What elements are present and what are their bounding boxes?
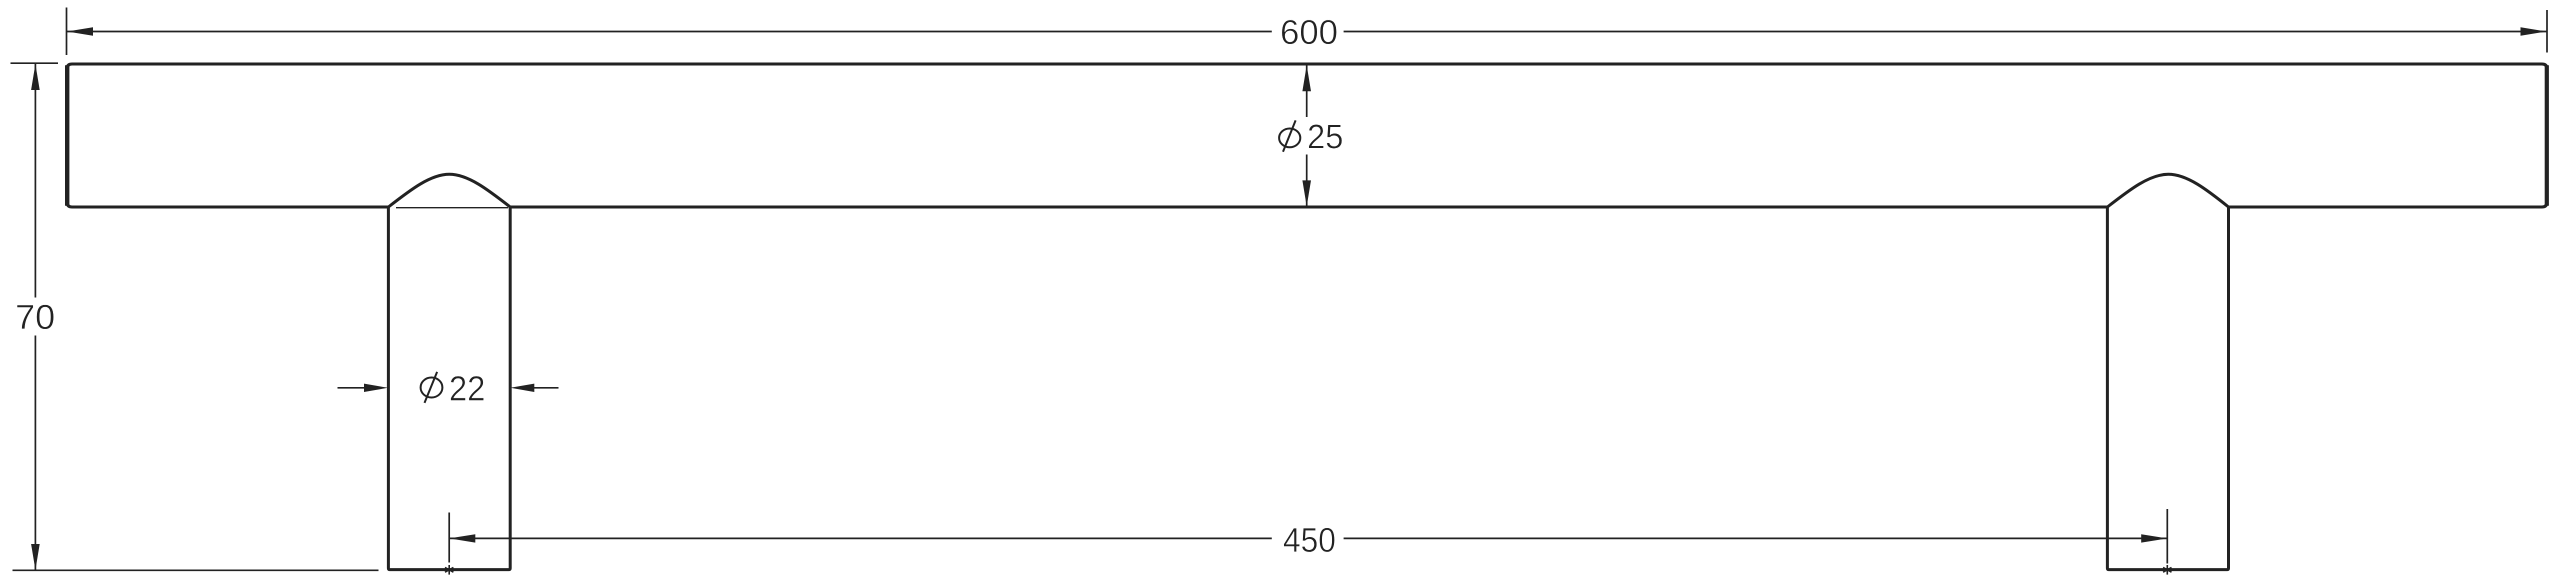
dim dia25 diameter symbol bbox=[1279, 120, 1300, 151]
center mark star left bbox=[445, 565, 453, 575]
dim 70 arrow down bbox=[31, 544, 40, 570]
dim 600 arrow right bbox=[2521, 27, 2547, 36]
dim dia22 leader line right bbox=[533, 387, 559, 389]
dim 450 arrow left (pointing left) bbox=[449, 534, 475, 542]
bar outline bbox=[67, 64, 2547, 207]
dim dia22 arrow right (pointing left) bbox=[510, 384, 534, 392]
dim dia25 arrow down bbox=[1302, 180, 1311, 206]
bar left end face bbox=[65, 65, 69, 206]
dim 70 line upper segment bbox=[34, 64, 36, 298]
dim 600 extension line left bbox=[66, 8, 68, 56]
center mark star right bbox=[2163, 565, 2171, 575]
dim dia22 text bbox=[451, 376, 484, 401]
dim 600 line left segment bbox=[67, 31, 1272, 33]
left post bbox=[388, 207, 510, 570]
dim dia25 arrow up bbox=[1302, 65, 1311, 91]
dim dia22 diameter symbol bbox=[421, 372, 443, 403]
dim 600 arrow left bbox=[67, 27, 93, 36]
dim dia25 text bbox=[1309, 124, 1342, 148]
left post fillet arch bbox=[388, 174, 510, 207]
right post fillet arch bbox=[2107, 174, 2228, 207]
dim dia22 arrow left (pointing right) bbox=[364, 384, 388, 392]
dim dia25 line lower segment bbox=[1306, 155, 1308, 207]
bar bottom edge seen through left post (thin) bbox=[396, 207, 508, 209]
dim 450 line left segment bbox=[449, 537, 1272, 539]
dim 600 extension line right bbox=[2546, 10, 2548, 53]
dim 450 extension line left bbox=[448, 513, 450, 563]
dim 70 extension line top bbox=[11, 62, 59, 64]
dim 450 text bbox=[1284, 528, 1335, 553]
dim 600 text bbox=[1282, 20, 1337, 45]
right post bbox=[2107, 207, 2228, 570]
dim 70 arrow up bbox=[31, 64, 40, 90]
bar right end face bbox=[2545, 65, 2549, 206]
dim dia22 leader line left bbox=[338, 387, 367, 389]
dim 70 text bbox=[17, 305, 54, 330]
dim 450 line right segment bbox=[1344, 537, 2168, 539]
dim 70 extension line bottom bbox=[13, 569, 379, 571]
dim 450 extension line right bbox=[2166, 509, 2168, 564]
dim 70 line lower segment bbox=[34, 336, 36, 571]
dim 450 arrow right (pointing right) bbox=[2141, 534, 2167, 542]
dim dia25 line upper segment bbox=[1306, 66, 1308, 118]
dim 600 line right segment bbox=[1344, 31, 2547, 33]
